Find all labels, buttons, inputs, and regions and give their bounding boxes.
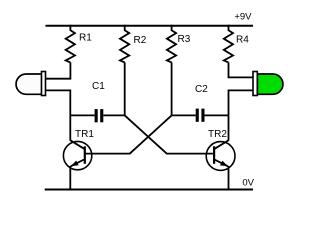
LED D2 (right, lit green) — [253, 72, 283, 96]
capacitor C2 — [172, 84, 229, 122]
wire R4 bottom to LED2 anode lead — [229, 62, 254, 77]
transistor TR1 (NPN, base on right) — [63, 129, 94, 170]
svg-text:+9V: +9V — [234, 12, 252, 23]
resistor R3 — [167, 25, 191, 63]
wire LED1 cathode lead down to TR1 collector — [46, 90, 71, 140]
svg-text:0V: 0V — [242, 178, 254, 189]
wire R3 column down to C2/crossover node — [171, 62, 173, 115]
wire LED2 cathode lead down to TR2 collector — [229, 90, 254, 140]
svg-text:C2: C2 — [195, 84, 208, 95]
wire crossover diagonal to TR2 base — [125, 115, 213, 153]
svg-text:R4: R4 — [236, 35, 249, 46]
wire R1 bottom to LED1 anode lead — [46, 62, 71, 78]
LED D1 (left, off/white) — [16, 72, 45, 96]
svg-text:TR2: TR2 — [208, 129, 227, 140]
svg-text:C1: C1 — [92, 81, 105, 92]
svg-text:TR1: TR1 — [75, 129, 94, 140]
0V ground rail — [45, 189, 253, 191]
+9V supply rail — [46, 25, 254, 27]
resistor R1 — [66, 25, 93, 63]
svg-text:R1: R1 — [79, 33, 92, 44]
wire TR2 emitter to 0V — [228, 166, 230, 189]
capacitor C1 — [92, 81, 125, 122]
svg-text:R2: R2 — [134, 35, 147, 46]
resistor R4 — [224, 25, 249, 63]
resistor R2 — [120, 25, 147, 63]
wire collector node to C1 — [70, 114, 94, 116]
transistor TR2 (NPN, base on left) — [206, 129, 235, 170]
wire TR1 emitter to 0V — [69, 166, 71, 189]
wire R2 column down to C1/crossover node — [124, 62, 126, 115]
wire crossover diagonal to TR1 base — [86, 115, 172, 153]
svg-text:R3: R3 — [178, 34, 191, 45]
